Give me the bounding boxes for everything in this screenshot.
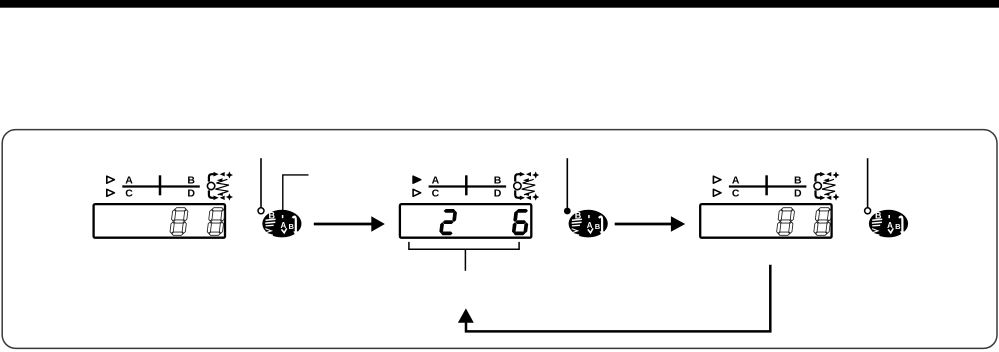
display unit 3 blink icon bottom inward arrowhead [826,196,831,200]
display unit 1 blink icon zigzag rays [215,179,229,195]
svg-text:A: A [587,221,593,230]
return path line from unit 3 down and left [466,265,770,332]
display unit 3 blink icon zigzag rays [822,179,836,195]
display unit 2 blink icon sparkle bottom [532,193,539,200]
display unit 3 seven-segment digit 8 [776,208,795,236]
rounded outer frame [2,130,997,349]
display unit 1 L-shaped leader line into button [283,175,309,211]
button B1 icon big down arrow [293,217,296,232]
svg-text:A: A [125,174,133,186]
display unit 1 blink icon top inward arrowhead [220,172,225,176]
display unit 3 scale pointer triangle bottom [713,189,721,196]
return path up arrowhead [458,308,474,322]
arrow from button B1 to display unit 2 [314,223,372,226]
display unit 3 scale baseline [729,185,807,187]
display unit 1 blink icon bottom curved arrow [209,190,214,197]
button B3 icon tick above A [888,215,890,218]
svg-text:B: B [595,222,601,231]
button B2 icon tick above A [588,215,590,218]
display unit 1 blink icon sparkle top [226,171,233,178]
svg-text:D: D [494,187,502,199]
display unit 2 seven-segment digit 2 [439,209,458,235]
display unit 2 blink icon top inward arrowhead [526,172,531,176]
svg-text:C: C [732,187,740,199]
svg-text:A: A [281,221,287,230]
display unit 2 blink icon zigzag rays [522,179,536,195]
display unit 1 blink icon bottom inward arrowhead [220,196,225,200]
display unit 1 scale baseline [122,185,200,187]
display unit 1 blink icon sparkle bottom [226,193,233,200]
button B2 icon big down arrow [599,217,602,232]
button B3 icon chevron arrow [888,228,893,232]
button B3 black oval [869,210,908,238]
display unit 3 blink icon top inward arrowhead [826,172,831,176]
display unit 1 blink icon top curved arrow [209,174,214,181]
display unit 1 scale center tick [159,175,162,195]
button B2 icon zigzag [571,229,579,236]
button B3 icon press lines [872,219,882,220]
display unit 1 blinking-indicator icon circle [207,182,214,189]
display unit 3 scale center tick [765,175,768,195]
display unit 3 blink icon top curved arrow [816,174,821,181]
svg-text:A: A [432,174,440,186]
button B1 black oval [262,210,301,238]
display unit 3 scale pointer triangle top [713,176,721,183]
display unit 3 blink icon sparkle bottom [832,193,839,200]
button B1 icon tick above A [282,215,284,218]
bracket under display unit 2 [409,242,519,249]
display unit 3 blink icon sparkle top [832,171,839,178]
bracket stem [464,249,466,271]
button B3 icon zigzag [872,229,880,236]
display unit 2 scale center tick [465,175,468,195]
display unit 1 seven-segment digit 8 [207,208,226,236]
button B1 icon press lines [266,219,276,220]
display unit 1 leader line to indicator [260,158,262,208]
button B2 black oval [569,210,608,238]
display unit 1 scale pointer triangle bottom [107,189,115,196]
display unit 3 seven-segment digit 8 [813,208,832,236]
top black header bar [0,0,999,8]
svg-text:B: B [187,174,195,186]
svg-text:B: B [494,174,502,186]
button B1 icon zigzag [265,229,273,236]
display unit 2 blink icon sparkle top [532,171,539,178]
svg-text:A: A [887,221,893,230]
button B2 icon chevron arrow [588,228,593,232]
display unit 2 blinking-indicator icon circle [514,182,521,189]
svg-text:B: B [895,222,901,231]
svg-text:B: B [288,222,294,231]
display unit 2 LCD panel outline [400,204,531,238]
display unit 1 scale pointer triangle top [107,176,115,183]
display unit 2 scale baseline [429,185,507,187]
display unit 2 scale pointer triangle top [413,176,421,183]
display unit 3 leader line to indicator [867,158,869,208]
display unit 3 indicator circle (open) [865,208,871,214]
display unit 1 seven-segment digit 8 [170,208,189,236]
display unit 2 blink icon bottom inward arrowhead [526,196,531,200]
button B1 icon chevron arrow [282,228,287,232]
display unit 2 indicator circle (fill) [564,208,571,215]
button B3 icon big down arrow [899,217,902,232]
display unit 1 indicator circle (open) [258,208,264,214]
svg-text:C: C [432,187,440,199]
display unit 2 scale pointer triangle bottom [413,189,421,196]
display unit 3 LCD panel outline [700,204,831,238]
display unit 3 blinking-indicator icon circle [814,182,821,189]
display unit 3 blink icon bottom curved arrow [816,190,821,197]
svg-text:D: D [794,187,802,199]
display unit 2 blink icon top curved arrow [515,174,520,181]
display unit 2 seven-segment digit 6 [511,209,530,235]
button B2 icon press lines [572,219,582,220]
svg-text:D: D [187,187,195,199]
svg-text:B: B [794,174,802,186]
svg-text:C: C [125,187,133,199]
display unit 2 leader line to indicator [566,158,568,211]
display unit 1 LCD panel outline [94,204,225,238]
svg-text:A: A [732,174,740,186]
display unit 2 blink icon bottom curved arrow [515,190,520,197]
arrow from button B2 to display unit 3 [615,223,672,226]
